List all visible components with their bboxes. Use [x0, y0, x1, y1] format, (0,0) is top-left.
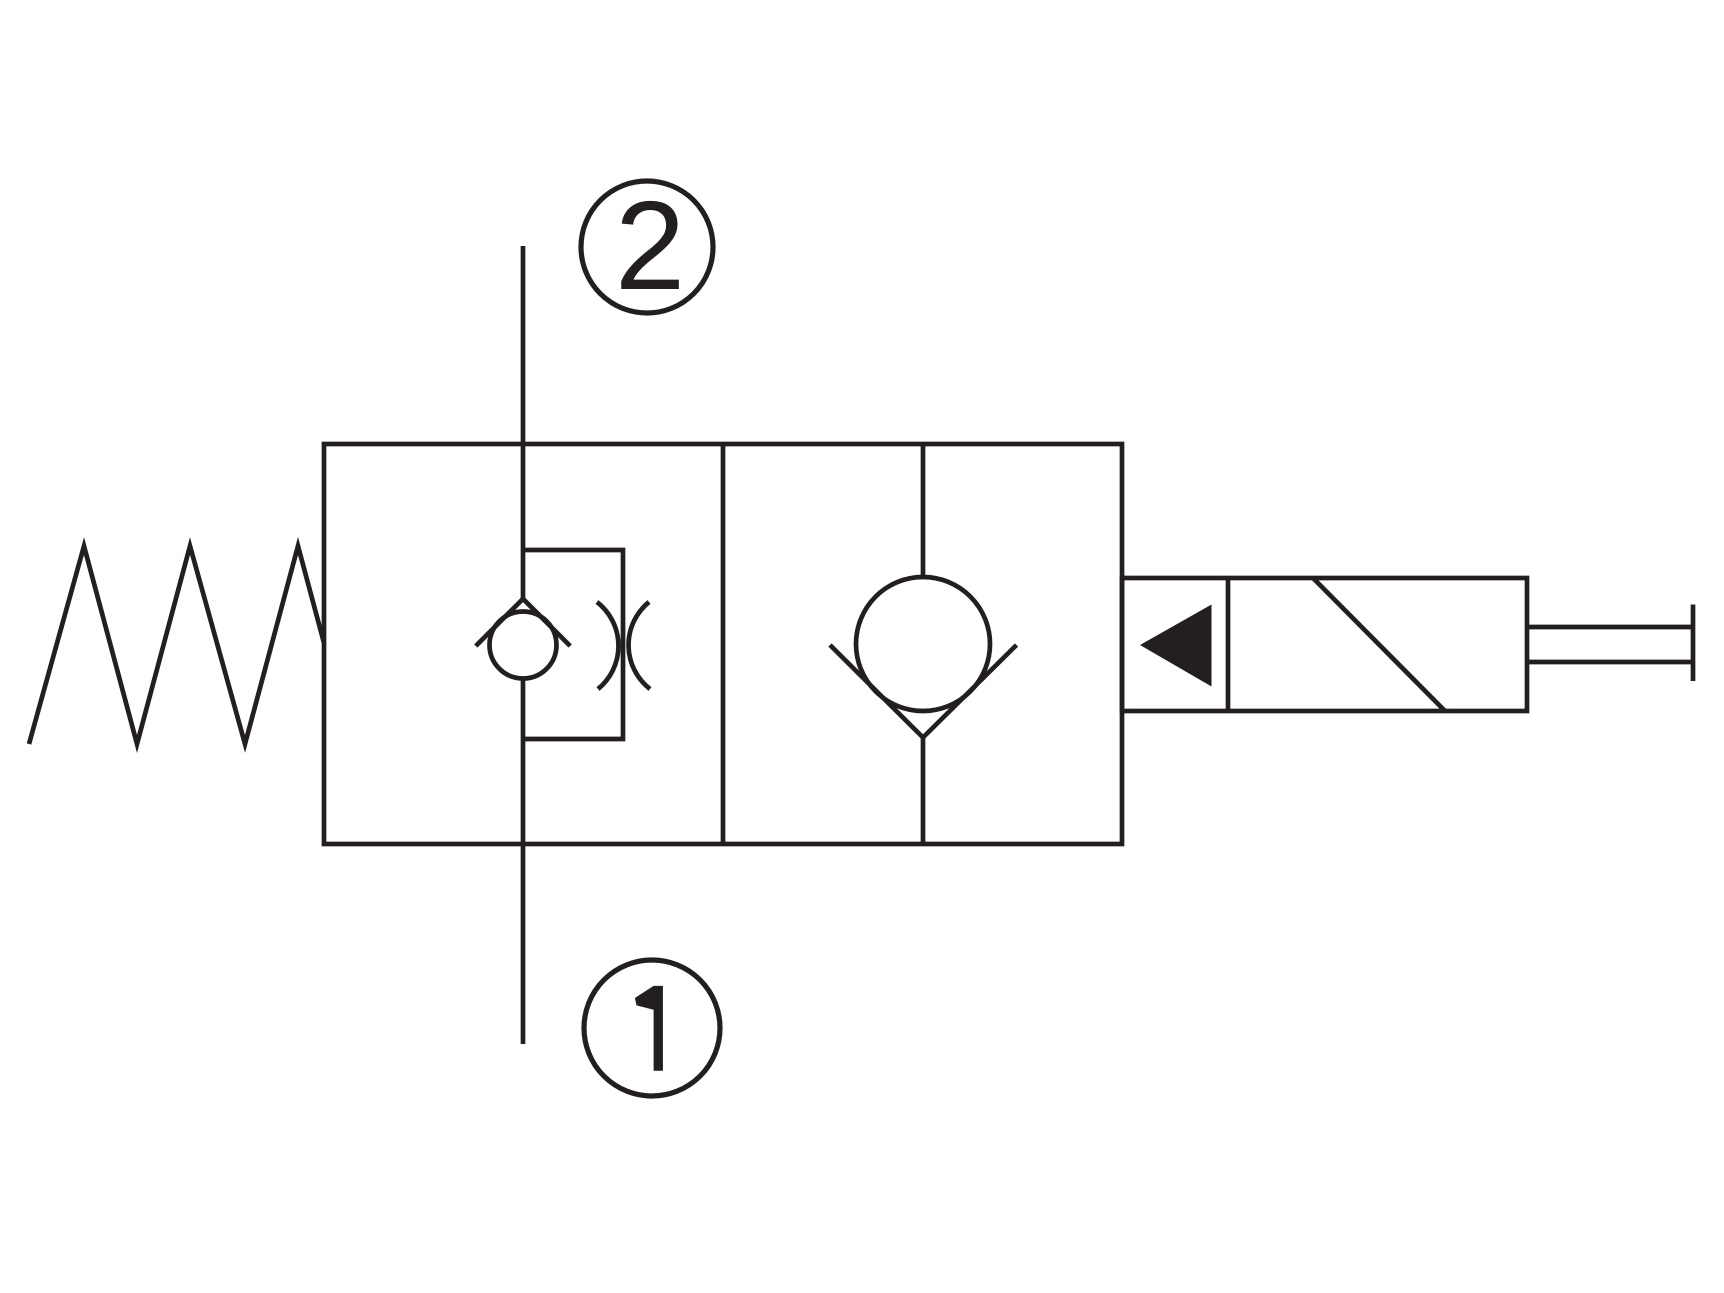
ball check chevron seat	[476, 599, 570, 646]
valve body divider	[721, 444, 726, 844]
check valve poppet circle	[856, 577, 990, 711]
check valve lower line	[921, 737, 926, 844]
node 1 label circle	[584, 960, 720, 1096]
plunger pin bottom line	[1527, 660, 1693, 665]
valve body outline	[324, 444, 1122, 844]
check valve seat V	[830, 645, 1017, 738]
spring	[29, 546, 324, 744]
solenoid arrow triangle	[1140, 605, 1212, 687]
check valve upper line	[921, 444, 926, 578]
solenoid diagonal	[1313, 578, 1445, 711]
solenoid box	[1122, 578, 1527, 711]
flow control envelope	[523, 550, 623, 739]
ball check ball	[490, 612, 557, 679]
node 2 label circle	[581, 181, 713, 313]
wire port 2 upper segment	[521, 246, 526, 600]
orifice left arc	[597, 602, 618, 689]
svg-text:2: 2	[615, 174, 685, 316]
node 1 digit	[635, 986, 663, 1071]
orifice right arc	[629, 602, 650, 689]
plunger end cap	[1691, 605, 1696, 682]
wire port 1 lower segment	[521, 677, 526, 1044]
plunger pin top line	[1527, 625, 1693, 630]
solenoid divider	[1226, 578, 1231, 711]
